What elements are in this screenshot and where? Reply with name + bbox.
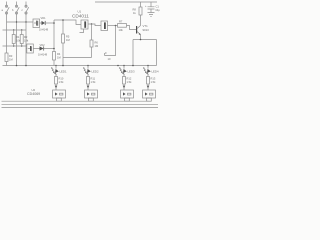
ground [148, 13, 155, 17]
svg-text:R7: R7 [119, 20, 123, 24]
svg-text:1.5k: 1.5k [59, 80, 65, 84]
wire U-connector [63, 58, 92, 66]
svg-text:LED3: LED3 [128, 70, 135, 74]
output box 3 [121, 90, 134, 101]
resistor R1 [12, 30, 15, 46]
junction dots bus y30 [13, 29, 22, 30]
junction dots bus y46 [13, 45, 22, 46]
LED channel 3 [119, 66, 127, 91]
wire emitter rail [133, 40, 157, 66]
resistor R3 [5, 53, 8, 62]
junction [53, 22, 55, 24]
svg-text:R1: R1 [16, 35, 20, 39]
diode VD2 [33, 46, 54, 50]
svg-text:R11: R11 [91, 77, 96, 81]
svg-text:R2: R2 [24, 35, 28, 39]
resistor R8 [139, 2, 142, 26]
svg-text:1.5k: 1.5k [91, 80, 97, 84]
LED channel 2 [83, 66, 91, 91]
gate U1b [101, 21, 108, 31]
LED channel 1 [51, 66, 59, 91]
svg-text:LED4: LED4 [152, 70, 159, 74]
diode VD1 [40, 21, 55, 25]
wire top bus [95, 1, 157, 3]
wire phase line A vertical [6, 2, 8, 66]
resistor R5 with line [62, 20, 65, 58]
junction [53, 48, 55, 50]
svg-text:10k: 10k [119, 28, 124, 32]
optocoupler U4 box [26, 44, 33, 53]
wire node vertical x54 [53, 20, 55, 66]
labels [2, 5, 161, 62]
wire main bus [3, 65, 157, 67]
switch SA3 [25, 5, 29, 14]
svg-text:R3: R3 [9, 54, 13, 58]
transistor VT1 [136, 26, 141, 40]
svg-text:VD2: VD2 [40, 43, 46, 47]
wire bus y22 [7, 21, 34, 23]
svg-text:1M: 1M [95, 44, 99, 48]
gate U1a [80, 20, 89, 33]
bottom bus lines [59, 100, 148, 102]
svg-text:CD4069: CD4069 [27, 92, 40, 96]
output box 2 [85, 90, 98, 101]
svg-text:10k: 10k [24, 39, 29, 43]
wire junction drop to U2 pin [105, 26, 116, 56]
wire gate2 out [108, 25, 118, 27]
LED channel 4 [143, 66, 151, 91]
svg-text:R8: R8 [133, 8, 137, 12]
svg-text:R5: R5 [66, 35, 70, 39]
svg-text:1N4148: 1N4148 [39, 27, 49, 31]
svg-text:1.5k: 1.5k [151, 80, 157, 84]
wire phase line C vertical [25, 2, 27, 66]
svg-text:1M: 1M [66, 38, 70, 42]
junction dots on bus [16, 65, 149, 67]
junction [115, 25, 117, 27]
junction [91, 23, 93, 25]
output box 4 [143, 90, 156, 101]
capacitor C1 [148, 2, 155, 13]
resistor R6 vertical with feedback line [90, 24, 93, 58]
wire gate1 input [54, 20, 81, 25]
svg-text:9013: 9013 [143, 28, 150, 32]
svg-text:R6: R6 [95, 41, 99, 45]
svg-text:LED2: LED2 [92, 70, 99, 74]
svg-text:1N4148: 1N4148 [38, 53, 48, 57]
output box 1 [53, 90, 66, 101]
svg-text:10μ: 10μ [155, 8, 160, 12]
resistor R7 horizontal [118, 24, 137, 30]
wire bus y30 [3, 29, 27, 31]
optocoupler U3 box [33, 19, 40, 28]
switch SA1 [5, 5, 9, 14]
svg-text:VD1: VD1 [41, 16, 47, 20]
junction dots bus y22 [16, 21, 27, 22]
svg-text:R10: R10 [59, 77, 64, 81]
svg-text:1M: 1M [57, 56, 61, 60]
svg-text:LED1: LED1 [60, 70, 67, 74]
junction [140, 39, 142, 41]
junction [62, 19, 64, 21]
svg-text:R13: R13 [151, 77, 156, 81]
wire phase line B vertical [16, 2, 18, 66]
svg-text:1.5k: 1.5k [127, 80, 133, 84]
wire bus y46 [3, 45, 27, 47]
svg-text:10k: 10k [16, 39, 21, 43]
svg-text:1M: 1M [9, 58, 13, 62]
svg-text:R4: R4 [57, 52, 61, 56]
resistor R2 [20, 30, 23, 46]
svg-text:CD4011: CD4011 [72, 13, 89, 18]
switch SA2 [15, 5, 19, 14]
svg-text:R12: R12 [127, 77, 132, 81]
wire gate1 out [88, 24, 101, 26]
resistor R4 [53, 52, 56, 61]
svg-text:C1: C1 [156, 5, 160, 9]
